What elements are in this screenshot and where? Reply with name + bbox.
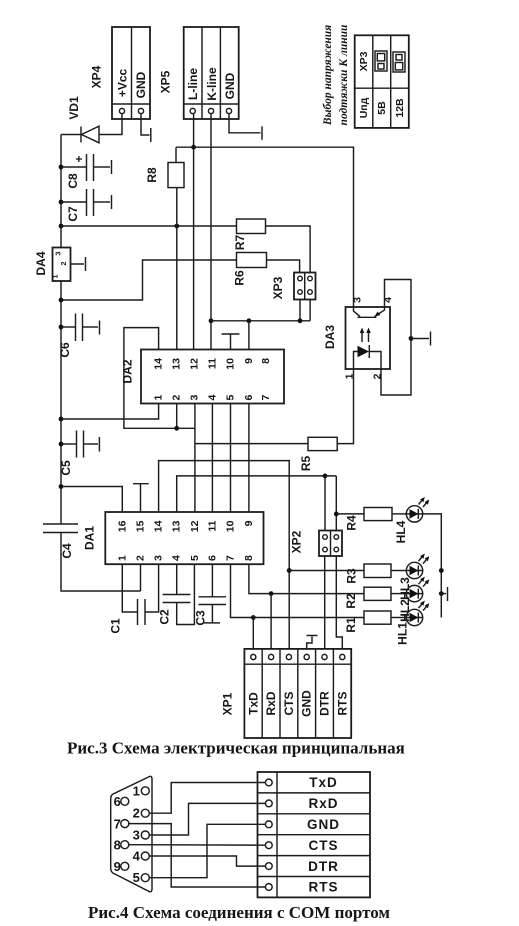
svg-text:8: 8 xyxy=(114,837,121,852)
svg-text:DTR: DTR xyxy=(308,859,339,874)
DB9 pin 9 xyxy=(121,862,129,870)
wire DA1 pin14 to XP2/CTS column (H2) xyxy=(159,461,290,649)
svg-text:GND: GND xyxy=(307,817,340,832)
wire RX bus to R5 (y=443.6) xyxy=(195,443,308,445)
svg-text:10: 10 xyxy=(225,520,237,532)
wire pin7 to RTS xyxy=(129,824,265,887)
node junction CTS / R3 row xyxy=(287,568,292,573)
svg-text:9: 9 xyxy=(243,358,255,364)
wire R8 top bus to DA3 pin3 (y=147) xyxy=(176,147,354,307)
svg-text:1: 1 xyxy=(51,274,60,278)
svg-text:R4: R4 xyxy=(345,515,359,531)
svg-text:7: 7 xyxy=(225,555,237,561)
ground at C3 xyxy=(204,622,220,624)
svg-text:2: 2 xyxy=(171,395,183,401)
wire HL4 cathode to common rail xyxy=(423,514,442,618)
table: voltage selection (top right) xyxy=(355,35,409,128)
svg-text:VD1: VD1 xyxy=(67,96,81,120)
svg-text:12: 12 xyxy=(188,358,200,370)
resistor R5 xyxy=(299,369,354,471)
jumper icon 12V xyxy=(393,52,405,72)
svg-text:XP1: XP1 xyxy=(221,692,235,715)
wire XP2 right column top / R4 branch xyxy=(335,476,337,531)
jumper block XP2 xyxy=(290,530,343,556)
wire DA1 pin1 to C4 xyxy=(121,564,123,591)
ground at C6 xyxy=(99,321,101,335)
svg-text:R6: R6 xyxy=(233,270,247,286)
node junction R4 branch xyxy=(334,512,339,517)
svg-text:5В: 5В xyxy=(376,101,388,115)
capacitor C4 (series in rail) xyxy=(43,524,78,559)
svg-text:13: 13 xyxy=(171,358,183,370)
svg-text:R3: R3 xyxy=(345,568,359,584)
wire pin3 to RxD xyxy=(149,803,265,835)
node junction H3 / XP2 left xyxy=(323,474,328,479)
DB9 pin 3 xyxy=(141,831,149,839)
svg-text:HL1: HL1 xyxy=(396,622,410,645)
capacitor C6 xyxy=(58,314,98,358)
wire RxD column xyxy=(270,594,272,649)
ground at C7 xyxy=(111,195,113,209)
svg-text:4: 4 xyxy=(133,849,141,864)
svg-text:DA4: DA4 xyxy=(34,251,48,275)
svg-text:3: 3 xyxy=(352,297,364,303)
svg-text:R8: R8 xyxy=(145,167,159,183)
svg-text:7: 7 xyxy=(260,395,272,401)
DB9 pin 6 xyxy=(121,797,129,805)
wire XP3 bottom pins to K-line bus xyxy=(211,300,310,321)
svg-text:RxD: RxD xyxy=(264,691,278,715)
caption: voltage selection (rotated italic) xyxy=(322,24,350,126)
capacitor C3 xyxy=(194,564,227,625)
svg-text:RTS: RTS xyxy=(335,692,349,716)
svg-text:9: 9 xyxy=(114,859,121,874)
svg-text:Выбор напряжения: Выбор напряжения xyxy=(322,25,334,126)
wire TxD column xyxy=(252,618,254,649)
optocoupler DA3 xyxy=(323,297,394,380)
DB9 pin 7 xyxy=(121,820,129,828)
ground at DA1 pin15 xyxy=(133,484,149,512)
svg-text:C4: C4 xyxy=(60,543,74,559)
svg-text:DTR: DTR xyxy=(318,691,332,716)
svg-text:C2: C2 xyxy=(158,609,172,625)
svg-text:14: 14 xyxy=(153,520,165,532)
svg-text:7: 7 xyxy=(114,816,121,831)
resistor R2 xyxy=(344,587,406,608)
wire rail to R6 (via jog) xyxy=(61,260,237,300)
svg-text:CTS: CTS xyxy=(282,692,296,716)
svg-text:+Vcc: +Vcc xyxy=(116,68,130,97)
wire pin2 to TxD xyxy=(149,783,265,814)
svg-text:5: 5 xyxy=(225,395,237,401)
diode VD1 xyxy=(61,96,99,143)
wire DA2 pin14 loop to pins 2,3 xyxy=(124,328,196,429)
connector XP5 xyxy=(159,27,239,119)
ground at DA4 xyxy=(85,257,87,271)
svg-text:12В: 12В xyxy=(394,98,406,118)
svg-text:GND: GND xyxy=(223,72,237,99)
wire R3 row xyxy=(289,570,364,572)
resistor R6 xyxy=(233,253,300,286)
svg-text:R1: R1 xyxy=(344,617,358,633)
IC DA2 xyxy=(121,350,285,404)
wire pin4 to DTR xyxy=(149,856,265,866)
wire DA2.5 to DA1.10 column xyxy=(230,404,232,513)
node junction R8 bottom / y226 xyxy=(174,224,179,229)
jumper block XP3 xyxy=(271,273,316,300)
wire XP2 right bottom to RTS xyxy=(336,556,342,649)
svg-text:RTS: RTS xyxy=(309,880,339,895)
svg-text:1: 1 xyxy=(153,395,165,401)
connector XP4 xyxy=(90,27,151,119)
svg-text:3: 3 xyxy=(153,555,165,561)
resistor R3 xyxy=(345,564,407,584)
LED HL4 xyxy=(394,497,429,543)
wire DA1 pin2 to C4 xyxy=(140,564,142,591)
svg-text:10: 10 xyxy=(225,358,237,370)
node junction HL3 cathode xyxy=(439,568,444,573)
resistor R1 xyxy=(344,611,406,633)
wire +V rail (left vertical bus) xyxy=(61,135,141,592)
svg-text:R2: R2 xyxy=(344,593,358,609)
ground at XP4 pin2 xyxy=(141,114,151,142)
wire XP2 left bottom to DTR xyxy=(324,556,326,649)
node junction RxD xyxy=(269,591,274,596)
svg-text:CTS: CTS xyxy=(309,838,339,853)
capacitor C1 xyxy=(109,564,159,633)
svg-text:2: 2 xyxy=(135,555,147,561)
ground at C8 xyxy=(111,160,113,174)
node junction DA2 pin9 tap xyxy=(247,318,252,323)
svg-text:Рис.4 Схема соединения с СОМ: Рис.4 Схема соединения с СОМ портом xyxy=(88,903,390,922)
wire rail to DA1 pin16 xyxy=(61,487,122,513)
svg-text:2: 2 xyxy=(59,261,68,265)
DB9 pin 5 xyxy=(141,874,149,882)
svg-text:4: 4 xyxy=(171,555,183,561)
node junction on loop xyxy=(409,336,414,341)
wire DA3 pin4/pin2 outer loop xyxy=(381,280,411,396)
svg-text:3: 3 xyxy=(133,828,140,843)
wire L-line to DA2 pin 12 xyxy=(193,114,195,350)
svg-text:5: 5 xyxy=(189,555,201,561)
signal table (Fig.4) xyxy=(258,772,371,897)
transistor inside DA3 xyxy=(354,307,385,317)
wire DA2 pin9 up xyxy=(248,321,250,350)
LED inside DA3 xyxy=(354,345,382,369)
svg-text:6: 6 xyxy=(206,555,218,561)
wire GND pin hook xyxy=(307,637,312,649)
resistor R7 xyxy=(233,219,310,273)
svg-text:5: 5 xyxy=(133,870,140,885)
regulator DA4 xyxy=(34,248,71,282)
capacitor C2 xyxy=(158,564,195,624)
DB9 pin 8 xyxy=(121,841,129,849)
svg-text:Uпд: Uпд xyxy=(358,97,370,118)
connector XP1 xyxy=(221,649,352,738)
svg-text:3: 3 xyxy=(188,395,200,401)
svg-text:XP4: XP4 xyxy=(90,65,104,88)
DB9 pin 1 xyxy=(141,787,149,795)
wire DA2 pin2 stub xyxy=(176,404,178,429)
svg-text:6: 6 xyxy=(114,794,121,809)
svg-text:C1: C1 xyxy=(109,618,123,634)
svg-text:RxD: RxD xyxy=(308,796,338,811)
svg-text:HL4: HL4 xyxy=(394,520,408,543)
wire XP4 +Vcc to VD1 xyxy=(99,114,122,135)
LED HL3 xyxy=(398,554,429,600)
svg-text:C5: C5 xyxy=(59,460,73,476)
IC DA1 xyxy=(83,512,264,564)
ground at XP5 GND pin xyxy=(229,114,262,140)
wire DA1 pin13 to XP2/R4 (H3) xyxy=(177,476,337,512)
svg-text:C7: C7 xyxy=(66,206,80,222)
LED HL2 xyxy=(398,577,429,622)
svg-text:L-line: L-line xyxy=(186,68,200,100)
svg-text:8: 8 xyxy=(243,555,255,561)
svg-text:XP3: XP3 xyxy=(271,276,285,299)
svg-text:3: 3 xyxy=(54,251,63,255)
capacitor C7 xyxy=(61,189,110,222)
wire DA2.4 to DA1.11 column xyxy=(211,404,213,513)
svg-text:Рис.3 Схема электрическая прин: Рис.3 Схема электрическая принципальная xyxy=(67,739,405,758)
svg-text:C6: C6 xyxy=(58,342,72,358)
ground at DA2 pin10 xyxy=(222,334,240,350)
resistor R8 xyxy=(145,147,184,349)
node junction K-line / XP3 bus xyxy=(209,318,214,323)
svg-text:1: 1 xyxy=(116,555,128,561)
svg-text:1: 1 xyxy=(133,783,140,798)
jumper icon 5V xyxy=(375,51,387,71)
wire DA1 pin7 to R1 row xyxy=(231,564,365,617)
svg-text:DA1: DA1 xyxy=(83,526,97,550)
ground at XP1 GND xyxy=(307,635,318,637)
svg-text:XP5: XP5 xyxy=(159,70,173,93)
capacitor C5 xyxy=(59,431,98,476)
svg-text:4: 4 xyxy=(206,395,218,401)
resistor R4 xyxy=(336,508,406,531)
svg-text:1: 1 xyxy=(344,373,356,379)
svg-text:R7: R7 xyxy=(233,235,247,251)
svg-text:9: 9 xyxy=(243,520,255,526)
svg-text:16: 16 xyxy=(116,520,128,532)
svg-text:XP2: XP2 xyxy=(290,530,304,553)
svg-text:11: 11 xyxy=(206,520,218,531)
node junction DA2 pin2 xyxy=(174,426,179,431)
DB9 pin 2 xyxy=(141,809,149,817)
ground at DA3 loop xyxy=(411,332,431,346)
svg-text:K-line: K-line xyxy=(205,67,219,101)
svg-text:6: 6 xyxy=(243,395,255,401)
svg-text:14: 14 xyxy=(153,358,165,370)
DB9 connector body xyxy=(111,776,152,891)
ground at LED common xyxy=(441,587,447,601)
LED HL1 xyxy=(396,601,430,645)
wire DA2 pin1 to rail xyxy=(61,404,159,420)
svg-text:+: + xyxy=(72,155,86,162)
wire DA2.3 to DA1.12 column xyxy=(194,404,196,513)
ground at C5 xyxy=(98,437,100,452)
svg-text:C8: C8 xyxy=(66,173,80,189)
node junction XP3 left col xyxy=(298,318,303,323)
svg-text:GND: GND xyxy=(300,690,314,717)
wire pin8 to CTS xyxy=(129,844,265,847)
svg-text:DA3: DA3 xyxy=(323,325,337,349)
wire DA4 pin2 xyxy=(71,263,85,265)
svg-text:TxD: TxD xyxy=(309,775,338,790)
capacitor C8 (electrolytic) xyxy=(61,154,110,189)
svg-text:ХР3: ХР3 xyxy=(358,51,370,71)
node rail junctions xyxy=(59,165,64,489)
node junction TxD xyxy=(251,615,256,620)
light arrows inside DA3 xyxy=(360,328,371,343)
wire K-line to DA2 pin 11 xyxy=(210,114,212,350)
node junction HL2 cathode / ground tap xyxy=(439,591,444,596)
svg-text:12: 12 xyxy=(189,520,201,532)
svg-text:11: 11 xyxy=(206,358,218,369)
svg-text:GND: GND xyxy=(134,71,148,98)
svg-text:2: 2 xyxy=(133,806,140,821)
node junction L-line / R8 bus xyxy=(191,145,196,150)
svg-text:TxD: TxD xyxy=(246,692,260,715)
svg-text:R5: R5 xyxy=(299,456,313,472)
wire rail to R7 row (y=226) xyxy=(61,225,237,227)
wire XP2 left column top xyxy=(324,476,326,531)
svg-text:DA2: DA2 xyxy=(121,359,135,383)
wire DA2.6 to DA1.9 column xyxy=(248,404,250,513)
svg-text:13: 13 xyxy=(171,520,183,532)
DB9 pin 4 xyxy=(141,852,149,860)
wire pin5 to GND xyxy=(149,824,265,877)
svg-text:подтяжки К линии: подтяжки К линии xyxy=(338,24,350,126)
wire DA1 pin8 to R2 row xyxy=(249,564,364,593)
svg-text:8: 8 xyxy=(260,358,272,364)
svg-text:15: 15 xyxy=(135,520,147,532)
